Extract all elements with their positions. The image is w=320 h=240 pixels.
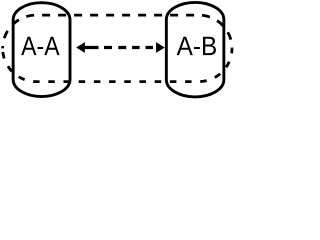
svg-text:A-B: A-B (177, 31, 218, 61)
arrowhead left (76, 42, 85, 53)
dashed boundary lower half (3, 48, 232, 81)
svg-text:A-A: A-A (21, 31, 60, 61)
cylinder A-A (13, 3, 70, 97)
cylinder A-B (166, 2, 224, 97)
dashed boundary upper half (3, 15, 232, 48)
dashed arrow shaft (85, 46, 157, 49)
arrowhead right (156, 42, 165, 53)
